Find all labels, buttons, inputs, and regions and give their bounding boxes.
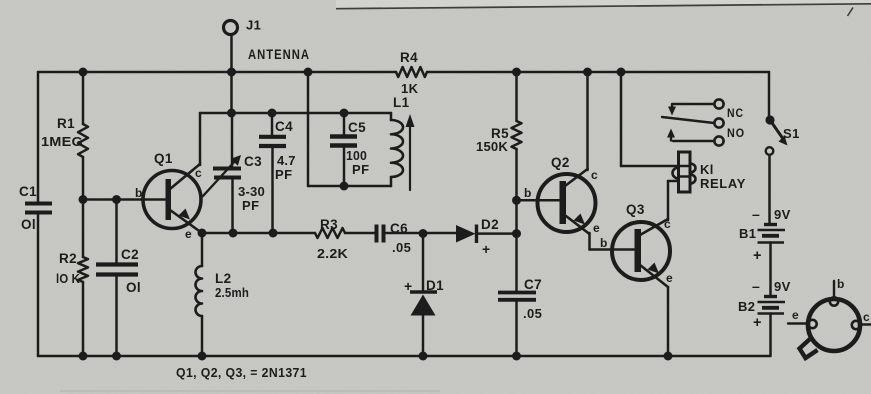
svg-text:Ol: Ol: [126, 280, 141, 295]
svg-text:Q1, Q2, Q3, = 2N1371: Q1, Q2, Q3, = 2N1371: [176, 366, 307, 380]
svg-text:1K: 1K: [401, 81, 419, 96]
svg-text:S1: S1: [783, 126, 800, 141]
svg-text:B1: B1: [739, 226, 756, 241]
svg-text:C6: C6: [390, 221, 408, 236]
svg-text:R4: R4: [400, 50, 418, 65]
svg-text:c: c: [863, 310, 870, 324]
svg-text:e: e: [792, 308, 799, 322]
svg-text:NO: NO: [727, 128, 745, 140]
svg-text:C1: C1: [19, 184, 37, 199]
svg-text:+: +: [482, 241, 491, 257]
svg-text:C2: C2: [121, 247, 139, 262]
svg-text:+: +: [753, 315, 762, 331]
svg-text:9V: 9V: [774, 207, 791, 222]
svg-text:Ol: Ol: [21, 217, 36, 232]
svg-text:.05: .05: [392, 240, 411, 255]
svg-text:R1: R1: [57, 116, 75, 131]
svg-text:C4: C4: [275, 119, 293, 134]
svg-text:Q2: Q2: [551, 155, 570, 170]
svg-text:PF: PF: [242, 198, 260, 213]
svg-text:Q1: Q1: [154, 151, 173, 166]
svg-text:9V: 9V: [774, 279, 791, 294]
svg-text:b: b: [600, 236, 608, 250]
svg-text:Q3: Q3: [626, 202, 645, 217]
svg-text:2.5mh: 2.5mh: [215, 285, 249, 300]
svg-text:PF: PF: [352, 162, 370, 177]
svg-text:R2: R2: [59, 251, 77, 266]
svg-text:e: e: [593, 221, 600, 235]
svg-text:J1: J1: [246, 18, 261, 33]
svg-text:100: 100: [346, 148, 367, 163]
svg-text:b: b: [135, 186, 143, 200]
svg-text:B2: B2: [738, 299, 755, 314]
svg-text:NC: NC: [727, 108, 744, 120]
svg-text:b: b: [524, 186, 532, 200]
svg-text:–: –: [752, 278, 760, 294]
svg-text:RELAY: RELAY: [700, 176, 746, 191]
svg-text:3-30: 3-30: [238, 184, 265, 199]
svg-text:+: +: [753, 248, 762, 264]
svg-text:e: e: [666, 271, 673, 285]
svg-text:–: –: [752, 206, 760, 222]
svg-text:c: c: [591, 168, 598, 182]
svg-text:C5: C5: [348, 120, 366, 135]
svg-text:C3: C3: [244, 154, 262, 169]
svg-text:c: c: [195, 166, 202, 180]
svg-text:L1: L1: [393, 95, 410, 110]
svg-text:R3: R3: [320, 217, 338, 232]
svg-text:Kl: Kl: [700, 162, 714, 177]
svg-text:lO K: lO K: [56, 271, 80, 286]
svg-text:1MEG: 1MEG: [41, 134, 83, 149]
svg-text:+: +: [404, 278, 413, 294]
svg-text:c: c: [664, 217, 671, 231]
svg-text:D1: D1: [426, 278, 444, 293]
svg-text:.05: .05: [523, 306, 542, 321]
svg-text:2.2K: 2.2K: [317, 246, 348, 261]
svg-text:C7: C7: [524, 277, 542, 292]
svg-text:b: b: [837, 277, 845, 291]
svg-text:PF: PF: [275, 167, 293, 182]
svg-text:D2: D2: [481, 217, 499, 232]
svg-text:150K: 150K: [476, 139, 508, 154]
svg-text:L2: L2: [215, 271, 232, 286]
svg-text:ANTENNA: ANTENNA: [248, 47, 310, 62]
svg-text:4.7: 4.7: [277, 153, 296, 168]
svg-text:e: e: [185, 227, 192, 241]
